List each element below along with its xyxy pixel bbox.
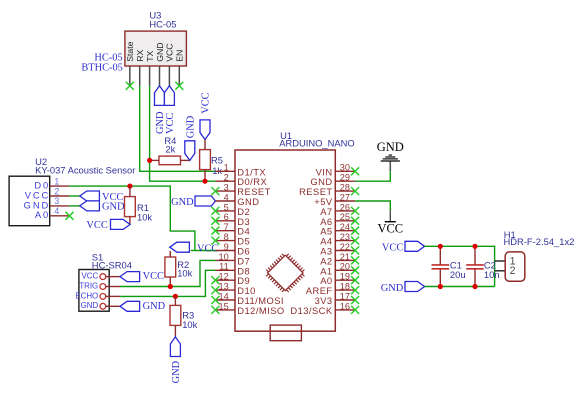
svg-text:16: 16 bbox=[340, 301, 350, 311]
svg-text:VCC: VCC bbox=[82, 272, 99, 281]
U1 pin 7 stub bbox=[215, 230, 235, 232]
no-connect X on U1 pin 22 bbox=[351, 247, 359, 255]
resistor R3 bottom lead bbox=[174, 325, 176, 337]
svg-text:3: 3 bbox=[224, 183, 229, 193]
no-connect X on U1 pin 24 bbox=[351, 227, 359, 235]
wire U2 GND to flag bbox=[69, 205, 80, 207]
svg-text:HC-05: HC-05 bbox=[149, 18, 176, 29]
U1 pin 23 stub bbox=[335, 240, 355, 242]
connector H1 body bbox=[505, 252, 525, 281]
H1 pin 1 stub bbox=[495, 260, 506, 262]
svg-text:VCC: VCC bbox=[143, 271, 164, 282]
wire U1 +5V pin27 to VCC symbol bbox=[355, 201, 390, 211]
resistor R2 body bbox=[165, 257, 176, 277]
resistor R4 body bbox=[159, 156, 181, 165]
wire VCC rail bbox=[425, 246, 495, 286]
svg-text:24: 24 bbox=[340, 222, 350, 232]
svg-text:27: 27 bbox=[340, 192, 350, 202]
svg-text:GND: GND bbox=[171, 197, 194, 208]
no-connect X on U1 pin 5 bbox=[211, 207, 219, 215]
U1 chip symbol (diamond with pins) bbox=[266, 254, 304, 292]
resistor R3 body bbox=[170, 305, 181, 325]
no-connect X on U3 EN pin bbox=[175, 82, 183, 90]
resistor R4 left lead bbox=[150, 159, 159, 161]
svg-text:4: 4 bbox=[224, 192, 229, 202]
S1 pin stub bbox=[106, 286, 120, 288]
supply symbol VCC bbox=[385, 211, 396, 222]
wire U2 VCC to flag bbox=[69, 195, 80, 197]
flag GND to Arduino GND pin 4 bbox=[195, 196, 215, 206]
U1 pin 12 stub bbox=[215, 279, 235, 281]
svg-text:TX: TX bbox=[145, 50, 155, 61]
capacitor C2 plates bbox=[466, 265, 484, 269]
svg-text:29: 29 bbox=[340, 173, 350, 183]
svg-text:D13/SCK: D13/SCK bbox=[290, 305, 333, 316]
svg-text:21: 21 bbox=[340, 252, 350, 262]
ground symbol GND bbox=[381, 155, 400, 171]
S1 pin circle bbox=[100, 284, 106, 290]
U1 pin 17 stub bbox=[335, 299, 355, 301]
no-connect X on U1 pin 20 bbox=[351, 266, 359, 274]
svg-text:18: 18 bbox=[340, 282, 350, 292]
no-connect X on U1 pin 15 bbox=[211, 306, 219, 314]
resistor R2 top lead bbox=[169, 251, 171, 257]
svg-text:25: 25 bbox=[340, 212, 350, 222]
svg-text:TRIG: TRIG bbox=[79, 281, 98, 290]
svg-text:1k: 1k bbox=[212, 165, 222, 176]
svg-text:GND: GND bbox=[143, 301, 166, 312]
U1 pin 25 stub bbox=[335, 220, 355, 222]
resistor R1 body bbox=[125, 197, 136, 217]
svg-text:GND: GND bbox=[381, 283, 404, 294]
junction D0/R1 bbox=[127, 184, 132, 189]
svg-text:23: 23 bbox=[340, 232, 350, 242]
U1 pin 13 stub bbox=[215, 289, 235, 291]
no-connect X on U1 pin 8 bbox=[211, 237, 219, 245]
svg-text:State: State bbox=[125, 41, 135, 61]
flag VCC below R1 bbox=[111, 219, 131, 229]
S1 pin stub bbox=[106, 295, 120, 297]
U1 pin 26 stub bbox=[335, 210, 355, 212]
S1 pin stub bbox=[106, 276, 120, 278]
svg-text:ECHO: ECHO bbox=[75, 291, 98, 300]
U1 pin 9 stub bbox=[215, 250, 235, 252]
resistor R5 body bbox=[200, 150, 211, 170]
svg-text:VCC: VCC bbox=[165, 113, 176, 134]
U1 pin 20 stub bbox=[335, 269, 355, 271]
module U2 body bbox=[9, 176, 50, 226]
svg-text:8: 8 bbox=[224, 232, 229, 242]
flag GND below R3 bbox=[170, 337, 180, 357]
junction R3/ECHO bbox=[173, 294, 178, 299]
svg-text:EN: EN bbox=[175, 50, 185, 62]
svg-text:15: 15 bbox=[218, 301, 228, 311]
wire S1 TRIG to Arduino D7 bbox=[120, 260, 215, 286]
U3 pin stubs bbox=[129, 66, 131, 86]
svg-text:VCC: VCC bbox=[377, 222, 403, 236]
flag VCC above R5 bbox=[200, 120, 210, 140]
svg-text:30: 30 bbox=[340, 163, 350, 173]
svg-text:10k: 10k bbox=[137, 212, 152, 223]
svg-text:GND: GND bbox=[102, 202, 125, 213]
U1 pin 5 stub bbox=[215, 210, 235, 212]
svg-text:6: 6 bbox=[224, 212, 229, 222]
resistor R1 top lead bbox=[129, 186, 131, 197]
flag GND rail bbox=[405, 282, 425, 292]
svg-text:GND: GND bbox=[81, 301, 99, 310]
U1 pin 15 stub bbox=[215, 309, 235, 311]
svg-text:KY-037 Acoustic Sensor: KY-037 Acoustic Sensor bbox=[35, 164, 135, 175]
module S1 body bbox=[79, 270, 109, 312]
no-connect X on U1 pin 3 bbox=[211, 187, 219, 195]
svg-text:1: 1 bbox=[224, 163, 229, 173]
no-connect X on U1 pin 7 bbox=[211, 227, 219, 235]
flag GND on U3 GND pin bbox=[155, 86, 165, 106]
no-connect X on U1 pin 17 bbox=[351, 296, 359, 304]
flag VCC on S1 VCC bbox=[120, 272, 140, 282]
junction TX/R4 bbox=[147, 158, 152, 163]
no-connect X on U1 pin 13 bbox=[211, 286, 219, 294]
no-connect X on U1 pin 26 bbox=[351, 207, 359, 215]
wire GND rail bbox=[425, 286, 495, 288]
U1 pin 4 stub bbox=[215, 200, 235, 202]
svg-text:GND: GND bbox=[171, 360, 182, 383]
IC U1 body bbox=[235, 150, 335, 331]
svg-text:7: 7 bbox=[224, 222, 229, 232]
U2 pin 3 stub bbox=[50, 205, 70, 207]
flag VCC rail bbox=[405, 241, 425, 251]
U2 pin 4 stub bbox=[50, 215, 70, 217]
junction C1/GND bbox=[438, 284, 443, 289]
svg-text:HDR-F-2.54_1x2: HDR-F-2.54_1x2 bbox=[504, 236, 575, 247]
svg-text:22: 22 bbox=[340, 242, 350, 252]
capacitor C2 leads bbox=[474, 246, 476, 286]
resistor R1 bottom lead bbox=[129, 217, 131, 225]
capacitor C1 leads bbox=[439, 246, 441, 286]
no-connect X on U1 pin 25 bbox=[351, 217, 359, 225]
svg-text:2: 2 bbox=[224, 173, 229, 183]
wire S1 ECHO to Arduino D8 bbox=[120, 270, 215, 296]
no-connect X on U1 pin 12 bbox=[211, 276, 219, 284]
svg-text:2k: 2k bbox=[165, 143, 175, 154]
svg-text:VCC: VCC bbox=[201, 92, 212, 113]
resistor R3 top lead bbox=[174, 296, 176, 305]
no-connect X on U1 pin 18 bbox=[351, 286, 359, 294]
wire U3 TX to Arduino D0/RX bbox=[150, 86, 216, 181]
svg-text:10k: 10k bbox=[182, 319, 197, 330]
flag GND on U2 pin3 bbox=[80, 201, 100, 211]
svg-text:VCC: VCC bbox=[382, 243, 403, 254]
svg-text:14: 14 bbox=[218, 291, 228, 301]
svg-text:D12/MISO: D12/MISO bbox=[237, 305, 284, 316]
U2 pin 1 stub bbox=[50, 185, 70, 187]
U1 pin 2 stub bbox=[215, 180, 235, 182]
svg-text:BTHC-05: BTHC-05 bbox=[81, 63, 123, 74]
svg-text:2: 2 bbox=[54, 186, 59, 196]
capacitor C1 plates bbox=[432, 265, 450, 269]
svg-text:19: 19 bbox=[340, 272, 350, 282]
U1 pin 27 stub bbox=[335, 200, 355, 202]
U1 pin 1 stub bbox=[215, 170, 235, 172]
no-connect X on U1 pin 14 bbox=[211, 296, 219, 304]
svg-text:10: 10 bbox=[218, 252, 228, 262]
svg-text:GND: GND bbox=[185, 115, 196, 138]
svg-text:GND: GND bbox=[155, 42, 165, 61]
junction C2/GND bbox=[472, 284, 477, 289]
no-connect X on U1 pin 19 bbox=[351, 276, 359, 284]
no-connect X on U1 pin 28 bbox=[351, 187, 359, 195]
junction C2/VCC bbox=[472, 244, 477, 249]
svg-text:20u: 20u bbox=[450, 269, 466, 280]
svg-text:VCC: VCC bbox=[86, 220, 107, 231]
no-connect X on U1 pin 30 bbox=[351, 167, 359, 175]
svg-text:GND: GND bbox=[377, 140, 404, 154]
flag GND on S1 GND bbox=[120, 301, 140, 311]
U1 pin 21 stub bbox=[335, 259, 355, 261]
svg-text:1: 1 bbox=[54, 176, 59, 186]
wire U2 D0 to Arduino D6 (net) bbox=[69, 186, 215, 250]
svg-text:5: 5 bbox=[224, 202, 229, 212]
U1 pin 14 stub bbox=[215, 299, 235, 301]
U1 pin 16 stub bbox=[335, 309, 355, 311]
junction C1/VCC bbox=[438, 244, 443, 249]
flag VCC above R2 bbox=[170, 242, 190, 252]
flag GND at R4 right bbox=[185, 141, 195, 161]
svg-text:RX: RX bbox=[135, 50, 145, 62]
S1 pin circle bbox=[100, 274, 106, 280]
flag VCC on U3 VCC pin bbox=[164, 86, 174, 106]
U1 pin 19 stub bbox=[335, 279, 355, 281]
U1 pin 18 stub bbox=[335, 289, 355, 291]
module U3 HC-05 body bbox=[125, 31, 186, 66]
svg-text:26: 26 bbox=[340, 202, 350, 212]
no-connect X on U3 State pin bbox=[126, 82, 134, 90]
svg-text:ARDUINO_NANO: ARDUINO_NANO bbox=[279, 138, 355, 149]
U1 USB connector rectangle bbox=[270, 325, 301, 341]
resistor R2 bottom lead bbox=[169, 277, 171, 287]
H1 pin 2 stub bbox=[495, 270, 506, 272]
svg-text:12: 12 bbox=[218, 272, 228, 282]
S1 pin circle bbox=[100, 303, 106, 309]
U1 pin 22 stub bbox=[335, 250, 355, 252]
wire U1 GND pin29 to ground symbol bbox=[355, 171, 390, 181]
U1 pin 8 stub bbox=[215, 240, 235, 242]
svg-text:17: 17 bbox=[340, 291, 350, 301]
S1 pin stub bbox=[106, 305, 120, 307]
U1 pin 10 stub bbox=[215, 259, 235, 261]
junction R2/TRIG bbox=[168, 284, 173, 289]
svg-text:11: 11 bbox=[219, 262, 229, 272]
U1 pin 11 stub bbox=[215, 269, 235, 271]
svg-text:VCC: VCC bbox=[197, 243, 218, 254]
svg-text:28: 28 bbox=[340, 183, 350, 193]
flag VCC on U2 pin2 bbox=[80, 191, 100, 201]
no-connect X on U1 pin 21 bbox=[351, 256, 359, 264]
svg-text:R5: R5 bbox=[211, 155, 223, 166]
svg-text:VCC: VCC bbox=[165, 43, 175, 61]
U1 pin 29 stub bbox=[335, 180, 355, 182]
no-connect X on U1 pin 23 bbox=[351, 237, 359, 245]
U1 pin 24 stub bbox=[335, 230, 355, 232]
U2 pin 2 stub bbox=[50, 195, 70, 197]
resistor R5 bottom lead bbox=[204, 170, 206, 182]
junction R5/D0RX row bbox=[202, 179, 207, 184]
svg-text:HC-SR04: HC-SR04 bbox=[92, 259, 132, 270]
svg-text:13: 13 bbox=[218, 282, 228, 292]
U1 pin 6 stub bbox=[215, 220, 235, 222]
svg-text:A0: A0 bbox=[35, 209, 50, 220]
svg-text:9: 9 bbox=[224, 242, 229, 252]
resistor R5 top lead bbox=[204, 140, 206, 150]
resistor R4 right lead bbox=[181, 159, 190, 161]
svg-text:3: 3 bbox=[54, 196, 59, 206]
U1 pin 28 stub bbox=[335, 190, 355, 192]
U1 pin 30 stub bbox=[335, 170, 355, 172]
no-connect X on U1 pin 16 bbox=[351, 306, 359, 314]
svg-text:2: 2 bbox=[510, 265, 516, 277]
no-connect X on U1 pin 6 bbox=[211, 217, 219, 225]
U1 pin 3 stub bbox=[215, 190, 235, 192]
no-connect X on U2 A0 bbox=[66, 212, 74, 220]
svg-text:4: 4 bbox=[54, 206, 59, 216]
svg-text:20: 20 bbox=[340, 262, 350, 272]
svg-text:10k: 10k bbox=[177, 267, 192, 278]
S1 pin circle bbox=[100, 294, 106, 300]
wire U3 RX to Arduino D1/TX bbox=[140, 86, 216, 172]
